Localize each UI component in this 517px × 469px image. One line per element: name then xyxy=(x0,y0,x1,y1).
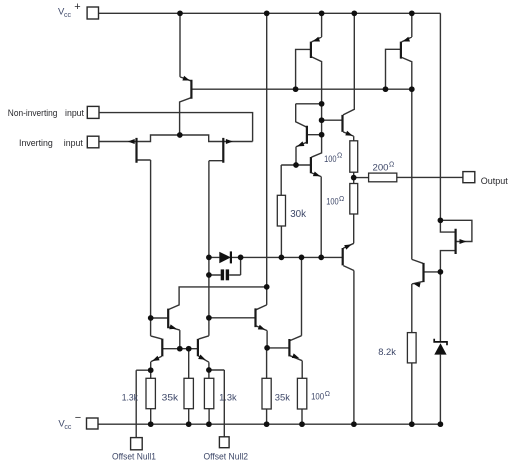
svg-text:8.2k: 8.2k xyxy=(378,346,396,357)
svg-text:Offset Null1: Offset Null1 xyxy=(112,451,156,462)
svg-text:100: 100 xyxy=(326,195,338,206)
svg-text:Ω: Ω xyxy=(325,391,330,398)
svg-text:30k: 30k xyxy=(290,209,306,220)
svg-text:35k: 35k xyxy=(275,392,290,403)
svg-text:Inverting: Inverting xyxy=(19,138,53,148)
svg-text:200: 200 xyxy=(373,162,389,173)
svg-text:35k: 35k xyxy=(162,391,179,402)
svg-text:Ω: Ω xyxy=(389,162,394,169)
svg-text:cc: cc xyxy=(64,12,72,19)
svg-text:input: input xyxy=(65,108,84,118)
svg-text:Offset Null2: Offset Null2 xyxy=(204,451,249,462)
svg-text:−: − xyxy=(75,412,81,424)
svg-text:Non-inverting: Non-inverting xyxy=(8,108,58,118)
svg-text:100: 100 xyxy=(311,390,324,401)
svg-text:100: 100 xyxy=(324,153,336,164)
svg-text:1.3k: 1.3k xyxy=(219,391,237,402)
svg-text:+: + xyxy=(74,1,80,13)
svg-text:Output: Output xyxy=(481,175,508,186)
svg-text:input: input xyxy=(64,138,83,148)
svg-text:Ω: Ω xyxy=(339,196,344,203)
svg-text:Ω: Ω xyxy=(337,153,342,160)
svg-text:1.3k: 1.3k xyxy=(122,392,139,403)
svg-text:cc: cc xyxy=(64,424,72,431)
